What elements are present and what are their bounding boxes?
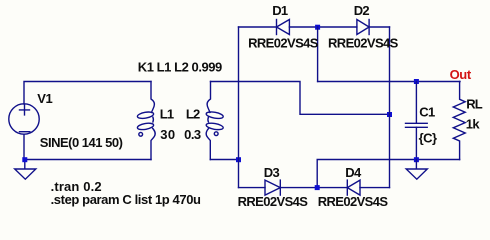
wire L2 bottom to bridge (210, 159, 238, 161)
junction Out node (414, 79, 419, 84)
svg-text:1k: 1k (466, 117, 481, 132)
wire ground row (317, 160, 459, 188)
wire left bridge vertical (238, 27, 240, 188)
inductor L1 (137, 82, 155, 160)
diode D2 (357, 20, 369, 35)
diode D1 (277, 20, 290, 35)
svg-text:30: 30 (160, 127, 175, 142)
svg-text:L2: L2 (186, 107, 200, 122)
inductor L2 (206, 82, 224, 160)
junction V1 ground node (22, 157, 27, 162)
svg-text:.step param C list 1p 470u: .step param C list 1p 470u (51, 192, 201, 207)
svg-text:RRE02VS4S: RRE02VS4S (328, 35, 399, 50)
diode D4 (347, 180, 360, 195)
wire L2 top jog to right bridge leg (211, 82, 390, 115)
wire right bridge vertical (389, 27, 391, 188)
diode D3 (265, 180, 280, 195)
svg-text:C1: C1 (419, 104, 435, 119)
ground (right) (406, 160, 427, 180)
junction D3-D4 node (315, 185, 320, 190)
wire bottom bridge row (239, 187, 390, 189)
svg-text:{C}: {C} (419, 130, 437, 145)
svg-text:V1: V1 (37, 91, 52, 106)
junction D1-D2 node (315, 25, 320, 30)
svg-text:Out: Out (450, 67, 472, 82)
voltage source V1 (9, 104, 39, 134)
svg-text:D2: D2 (354, 3, 370, 18)
wire D1-D2 node riser to Out row (317, 27, 319, 82)
capacitor C1 (406, 82, 428, 160)
svg-text:D1: D1 (272, 3, 288, 18)
wire V1 bottom (23, 134, 25, 159)
wire top bridge row (239, 26, 390, 28)
svg-text:D3: D3 (264, 165, 280, 180)
wire Out row (318, 81, 460, 83)
svg-text:L1: L1 (160, 107, 174, 122)
wire L1 bottom to V1 ground (24, 159, 151, 161)
ground (left) (15, 160, 36, 180)
wire V1 top to L1 (24, 82, 151, 105)
svg-text:SINE(0 141 50): SINE(0 141 50) (40, 135, 123, 150)
junction L2 bottom node (236, 157, 241, 162)
resistor RL (453, 82, 465, 160)
svg-text:RL: RL (466, 97, 483, 112)
junction ground node (414, 157, 419, 162)
svg-text:RRE02VS4S: RRE02VS4S (318, 194, 389, 209)
svg-text:K1 L1 L2 0.999: K1 L1 L2 0.999 (138, 60, 222, 75)
svg-text:D4: D4 (345, 165, 362, 180)
svg-text:RRE02VS4S: RRE02VS4S (248, 35, 319, 50)
junction right leg mid node (387, 112, 392, 117)
svg-text:0.3: 0.3 (184, 127, 201, 142)
svg-text:RRE02VS4S: RRE02VS4S (238, 194, 309, 209)
